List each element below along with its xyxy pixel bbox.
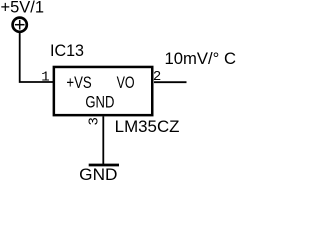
svg-text:1: 1	[41, 69, 49, 85]
IC13 body (LM35CZ)	[54, 67, 152, 115]
power supply symbol +5V	[13, 18, 27, 32]
svg-text:3: 3	[87, 117, 103, 125]
svg-text:GND: GND	[79, 166, 117, 182]
svg-text:+VS: +VS	[66, 74, 91, 92]
svg-text:10mV/° C: 10mV/° C	[165, 50, 237, 68]
svg-text:VO: VO	[117, 74, 135, 92]
wire from +5V supply to pin 1	[20, 33, 53, 82]
svg-text:IC13: IC13	[50, 42, 84, 60]
ground symbol bar	[89, 164, 119, 167]
svg-text:+5V/1: +5V/1	[1, 0, 45, 17]
wire on pin 2 (VO output)	[154, 81, 187, 83]
svg-text:GND: GND	[85, 94, 114, 112]
wire from pin 3 to ground	[102, 116, 104, 164]
svg-text:LM35CZ: LM35CZ	[115, 118, 180, 136]
